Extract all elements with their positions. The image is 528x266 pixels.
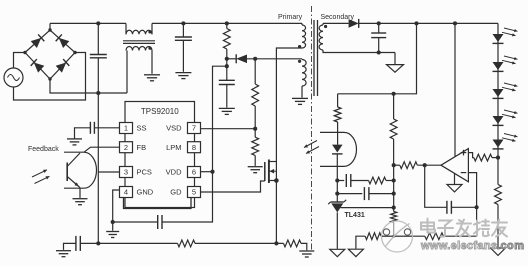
svg-text:TL431: TL431 (345, 212, 365, 219)
svg-text:GND: GND (137, 188, 154, 197)
svg-text:TPS92010: TPS92010 (141, 107, 179, 116)
svg-text:Feedback: Feedback (28, 146, 59, 153)
svg-text:8: 8 (192, 143, 196, 152)
svg-text:Primary: Primary (278, 14, 303, 21)
svg-text:FB: FB (137, 143, 147, 152)
svg-text:LPM: LPM (166, 143, 181, 152)
svg-text:PCS: PCS (137, 168, 152, 177)
svg-text:www.elecfans: www.elecfans (420, 240, 497, 252)
svg-text:VSD: VSD (166, 124, 182, 133)
svg-text:5: 5 (192, 188, 196, 197)
svg-text:6: 6 (192, 168, 196, 177)
svg-text:Secondary: Secondary (321, 14, 355, 21)
svg-text:SS: SS (137, 124, 147, 133)
svg-text:VDD: VDD (166, 168, 182, 177)
svg-text:4: 4 (124, 188, 128, 197)
svg-text:GD: GD (170, 188, 182, 197)
svg-text:7: 7 (192, 124, 196, 133)
svg-text:3: 3 (124, 168, 128, 177)
svg-text:2: 2 (124, 143, 128, 152)
svg-text:1: 1 (124, 124, 128, 133)
svg-text:.com: .com (497, 240, 524, 252)
